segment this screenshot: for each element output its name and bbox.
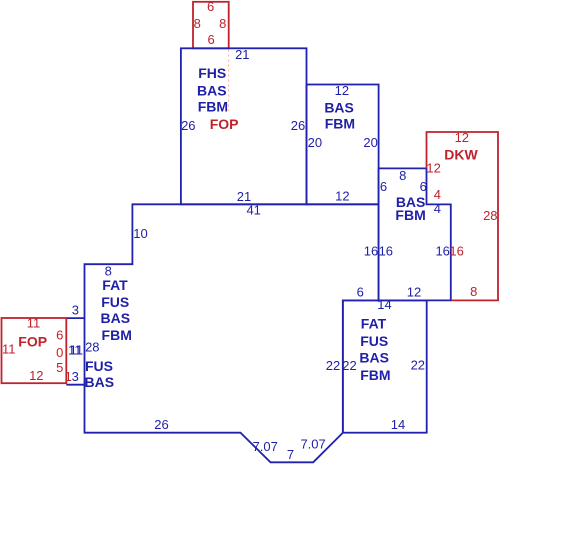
svg-text:FOP: FOP: [210, 116, 239, 132]
svg-text:0: 0: [56, 345, 63, 360]
svg-text:21: 21: [237, 189, 251, 204]
svg-text:4: 4: [434, 201, 441, 216]
svg-text:4: 4: [434, 187, 441, 202]
svg-text:11: 11: [70, 343, 84, 358]
middle right BAS/FBM polygon with notch: [379, 168, 451, 300]
stoop 6x8 red outline top: [193, 2, 229, 49]
svg-text:12: 12: [455, 130, 469, 145]
svg-text:6: 6: [357, 285, 364, 300]
svg-text:41: 41: [246, 203, 260, 218]
svg-text:22: 22: [342, 358, 356, 373]
svg-text:28: 28: [483, 208, 497, 223]
svg-text:3: 3: [72, 303, 79, 318]
svg-text:22: 22: [411, 357, 425, 372]
svg-text:7: 7: [287, 447, 294, 462]
svg-text:BAS: BAS: [197, 82, 227, 98]
svg-text:16: 16: [449, 244, 463, 259]
svg-text:8: 8: [194, 16, 201, 31]
svg-text:FAT: FAT: [361, 315, 387, 331]
svg-text:FBM: FBM: [325, 115, 355, 131]
svg-text:FBM: FBM: [395, 207, 425, 223]
svg-text:16: 16: [435, 244, 449, 259]
svg-text:6: 6: [207, 32, 214, 47]
svg-text:7.07: 7.07: [300, 437, 325, 452]
svg-text:26: 26: [291, 118, 305, 133]
svg-text:14: 14: [391, 417, 405, 432]
svg-text:FUS: FUS: [101, 294, 129, 310]
svg-text:12: 12: [407, 285, 421, 300]
svg-text:12: 12: [335, 188, 349, 203]
svg-text:10: 10: [133, 226, 147, 241]
svg-text:5: 5: [56, 360, 63, 375]
svg-text:11: 11: [2, 341, 16, 356]
svg-text:BAS: BAS: [85, 374, 115, 390]
left bay jog bottom line: [66, 384, 84, 386]
svg-text:FBM: FBM: [360, 367, 390, 383]
svg-text:FUS: FUS: [360, 333, 388, 349]
DKW red outline: [427, 132, 499, 300]
svg-text:7.07: 7.07: [253, 439, 278, 454]
svg-text:6: 6: [56, 328, 63, 343]
svg-text:6: 6: [380, 179, 387, 194]
svg-text:3: 3: [72, 369, 79, 384]
FOP dashed tie line: [228, 49, 230, 111]
svg-text:26: 26: [181, 118, 195, 133]
svg-text:26: 26: [154, 417, 168, 432]
svg-text:8: 8: [219, 16, 226, 31]
svg-text:20: 20: [363, 135, 377, 150]
svg-text:14: 14: [377, 297, 391, 312]
left FOP porch red outline: [2, 318, 67, 383]
svg-text:DKW: DKW: [444, 147, 478, 163]
svg-text:22: 22: [326, 358, 340, 373]
lower FAT rect: [343, 300, 427, 432]
svg-text:FBM: FBM: [102, 327, 132, 343]
svg-text:BAS: BAS: [101, 310, 131, 326]
svg-text:6: 6: [420, 179, 427, 194]
svg-text:16: 16: [379, 244, 393, 259]
svg-text:20: 20: [308, 135, 322, 150]
svg-text:BAS: BAS: [324, 99, 354, 115]
svg-text:FAT: FAT: [102, 277, 128, 293]
svg-text:16: 16: [364, 244, 378, 259]
main floor outline polygon: [85, 204, 379, 462]
svg-text:6: 6: [207, 0, 214, 14]
svg-text:12: 12: [426, 160, 440, 175]
svg-text:8: 8: [399, 168, 406, 183]
upper 12x20 rect BAS/FBM: [307, 85, 379, 205]
left bay jog top line: [66, 317, 84, 319]
svg-text:21: 21: [235, 47, 249, 62]
svg-text:FOP: FOP: [18, 334, 47, 350]
big upper rect FHS/BAS/FBM/FOP: [181, 48, 307, 204]
svg-text:28: 28: [85, 340, 99, 355]
svg-text:12: 12: [335, 83, 349, 98]
svg-text:FBM: FBM: [198, 99, 228, 115]
svg-text:12: 12: [29, 368, 43, 383]
svg-text:FHS: FHS: [198, 65, 226, 81]
svg-text:BAS: BAS: [359, 349, 389, 365]
svg-text:FUS: FUS: [85, 358, 113, 374]
svg-text:11: 11: [27, 316, 41, 331]
svg-text:8: 8: [470, 284, 477, 299]
